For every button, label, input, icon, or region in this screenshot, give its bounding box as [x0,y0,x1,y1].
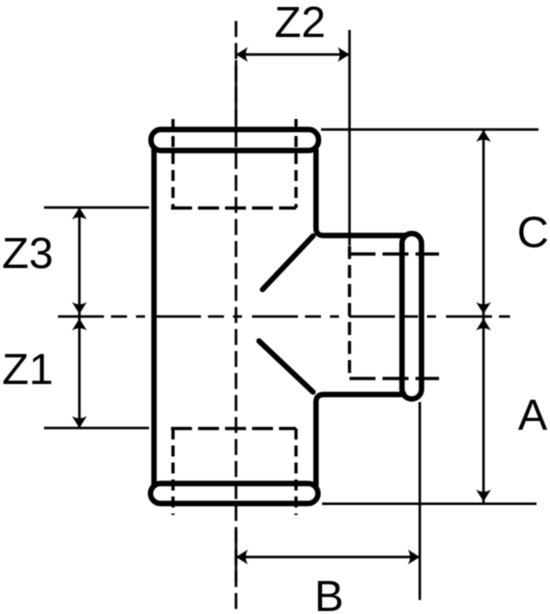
extension line Z1 bottom [44,427,149,430]
dimension line Z2 [236,53,350,56]
extension line top right [321,128,539,131]
extension line Z3 top [44,206,149,209]
dimension line C [482,130,485,317]
extension line B right [419,402,422,600]
upper transition diagonal [263,236,314,290]
extension line bottom right [322,503,537,506]
top socket dashed left line [171,119,174,208]
branch bottom and body right edge lower [316,395,406,487]
svg-text:Z2: Z2 [274,0,325,47]
branch hub cap outline [402,234,422,400]
bottom socket dashed depth line [171,427,296,430]
svg-text:A: A [518,391,548,440]
body right edge upper and branch top [316,149,406,236]
extension line B left on centerline [235,530,238,582]
svg-text:B: B [314,572,343,614]
dimension line A [482,317,485,504]
dimension line B [236,556,420,559]
dimension line Z1 [78,317,81,429]
svg-text:Z3: Z3 [2,229,53,278]
branch socket dashed depth line [348,246,351,379]
extension line Z2 right [348,30,351,246]
bottom socket dashed left line [171,429,174,516]
horizontal centerline [58,315,510,318]
top socket dashed right line [294,119,297,208]
body left edge [151,149,156,485]
top socket dashed depth line [171,206,296,209]
vertical centerline [235,21,238,614]
bottom socket dashed right line [294,429,297,516]
branch socket dashed bottom line [350,377,440,380]
bottom hub cap outline [151,484,319,504]
dimension line Z3 [78,208,81,317]
extension line Z2 left on centerline [235,60,238,134]
top hub cap outline [151,130,319,151]
lower transition diagonal [259,341,313,392]
branch socket dashed top line [350,252,440,255]
svg-text:C: C [517,208,549,257]
svg-text:Z1: Z1 [2,345,53,394]
